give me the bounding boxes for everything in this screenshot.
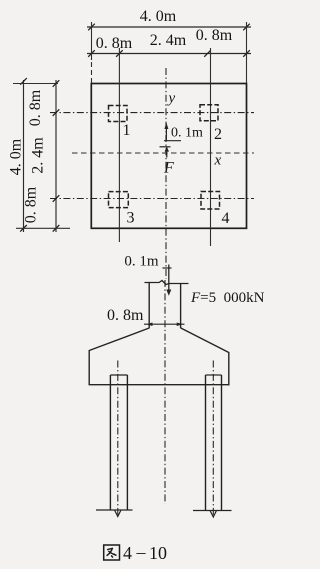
- hand-drawn CJK glyph: 图: [104, 545, 120, 560]
- cap right slope: [181, 328, 229, 353]
- elevation centerline: [164, 280, 166, 504]
- 0.8m dim arrow left: [146, 323, 152, 327]
- cap right edge: [228, 352, 230, 386]
- svg-text:F=5 000kN: F=5 000kN: [190, 290, 265, 306]
- cap left edge: [88, 350, 90, 385]
- svg-text:2: 2: [214, 126, 222, 143]
- tick h: [53, 225, 60, 232]
- crossbar tick at column top: [163, 267, 172, 269]
- extension line top-left corner: [91, 22, 93, 60]
- caption 图 4-10: [104, 542, 167, 563]
- svg-text:4. 0m: 4. 0m: [140, 8, 177, 25]
- pile 2 (dashed square): [200, 105, 218, 121]
- svg-text:2. 4m: 2. 4m: [30, 137, 47, 174]
- load arrow F (elevation): [168, 265, 170, 293]
- extension line left-top: [13, 83, 58, 85]
- svg-text:y: y: [167, 91, 176, 107]
- y-axis / main centerline (plan): [165, 68, 167, 279]
- svg-text:x: x: [214, 153, 222, 169]
- tick d: [243, 50, 250, 57]
- column left edge: [148, 283, 150, 328]
- left pile centerline: [117, 361, 119, 516]
- tick c: [204, 50, 211, 57]
- right pile elevation: [206, 374, 222, 376]
- tick bottom 4.0m-left: [20, 225, 27, 232]
- svg-text:4: 4: [222, 210, 230, 227]
- left pile elevation: [110, 374, 127, 376]
- x-axis dashed line: [72, 152, 254, 154]
- extension line top-right corner: [246, 22, 248, 83]
- left pile tip V: [115, 510, 122, 517]
- svg-text:2. 4m: 2. 4m: [150, 32, 187, 49]
- tick a: [88, 50, 95, 57]
- tick top 4.0m-left: [20, 78, 27, 85]
- svg-text:0. 8m: 0. 8m: [96, 35, 133, 52]
- right pile centerline: [212, 361, 214, 516]
- cap left slope: [89, 328, 149, 351]
- left pile bottom line: [96, 509, 133, 511]
- svg-text:1: 1: [123, 122, 131, 139]
- svg-text:F: F: [163, 160, 174, 177]
- left dimension line 0.8/2.4/0.8: [55, 80, 57, 232]
- column right edge: [180, 284, 182, 328]
- svg-text:3: 3: [127, 210, 135, 227]
- tick left 4.0m: [88, 24, 95, 31]
- svg-text:0. 8m: 0. 8m: [196, 27, 233, 44]
- top dimension line 0.8/2.4/0.8: [87, 53, 251, 55]
- load point mark on x-axis: [160, 146, 171, 148]
- svg-text:–: –: [136, 542, 147, 562]
- svg-text:4. 0m: 4. 0m: [8, 138, 25, 175]
- tick g: [53, 195, 60, 202]
- svg-text:0. 8m: 0. 8m: [27, 89, 44, 126]
- svg-text:0. 8m: 0. 8m: [23, 186, 40, 223]
- svg-text:4: 4: [123, 543, 132, 563]
- svg-text:10: 10: [149, 543, 167, 563]
- pile row centerline top (dash-dot): [50, 112, 254, 114]
- cap bottom edge: [89, 384, 230, 386]
- pile 1 (dashed square): [109, 106, 128, 122]
- pile column line right (through piles 2,4): [210, 48, 212, 246]
- 0.8m dim arrow right: [177, 323, 183, 327]
- tick b: [116, 50, 123, 57]
- tick right 4.0m: [243, 24, 250, 31]
- top dimension line 4.0m: [87, 26, 251, 28]
- pile 4 (dashed square): [201, 192, 220, 210]
- tick e: [53, 80, 60, 87]
- left dimension line 4.0m: [23, 80, 25, 232]
- svg-text:0. 1m: 0. 1m: [124, 254, 159, 270]
- tick f: [53, 109, 60, 116]
- right pile tip V: [210, 511, 217, 518]
- cap outline (4.0m x 4.0m square): [91, 84, 246, 229]
- 0.1m leader arrow (plan): [165, 127, 167, 141]
- 0.1m bar (plan): [164, 140, 181, 142]
- column top edge: [145, 281, 189, 285]
- pile row centerline bottom (dash-dot): [50, 198, 254, 200]
- 0.8m dimension line at column base: [144, 323, 185, 325]
- right pile bottom line: [193, 510, 232, 512]
- svg-text:0. 1m: 0. 1m: [171, 126, 203, 141]
- pile 3 (dashed square): [109, 192, 129, 208]
- pile column line left (through piles 1,3): [118, 48, 120, 242]
- extension line left-bottom: [16, 227, 70, 229]
- svg-text:0. 8m: 0. 8m: [107, 307, 144, 324]
